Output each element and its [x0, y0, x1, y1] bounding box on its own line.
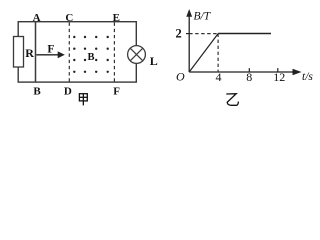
- svg-text:2: 2: [175, 26, 181, 40]
- svg-text:B/T: B/T: [194, 11, 212, 23]
- svg-text:E: E: [113, 12, 120, 24]
- svg-text:B: B: [33, 86, 41, 98]
- dashed guide vertical at t=4: [217, 34, 219, 72]
- wire: outer circuit rectangle (rails loop): [18, 22, 136, 82]
- dashed guide horizontal at B=2: [189, 33, 218, 35]
- dashed boundary E-F: [113, 23, 115, 82]
- svg-text:O: O: [176, 69, 185, 83]
- tick t=12: [277, 68, 279, 72]
- svg-text:A: A: [33, 12, 41, 24]
- lamp L (circle with X): [128, 46, 146, 64]
- svg-text:R: R: [25, 46, 34, 60]
- magnetic field dots (B out of page): [73, 36, 109, 73]
- resistor R1 (box on left edge): [14, 37, 24, 68]
- svg-text:4: 4: [216, 70, 222, 84]
- svg-text:L: L: [150, 54, 158, 68]
- force arrow F: [36, 54, 58, 56]
- tick at B=2: [186, 33, 189, 35]
- svg-text:t/s: t/s: [302, 71, 313, 83]
- svg-text:B: B: [87, 52, 94, 63]
- dashed boundary C-D: [68, 23, 70, 82]
- svg-text:D: D: [64, 86, 72, 98]
- graph: y-axis B/T: [188, 15, 190, 73]
- label B (magnetic field): [87, 51, 95, 61]
- svg-text:12: 12: [273, 70, 285, 84]
- graph: x-axis t/s: [189, 71, 294, 73]
- curve: constant after 4s: [218, 33, 271, 35]
- tick t=8: [248, 68, 250, 72]
- svg-text:8: 8: [246, 70, 252, 84]
- caption 乙 (drawn glyph): [226, 94, 238, 106]
- svg-text:F: F: [113, 86, 120, 98]
- caption 甲 (drawn glyph): [79, 94, 87, 106]
- curve: ramp 0..4s: [189, 34, 218, 72]
- svg-text:F: F: [47, 44, 54, 56]
- conducting rod AB: [35, 22, 37, 82]
- svg-text:C: C: [65, 12, 73, 24]
